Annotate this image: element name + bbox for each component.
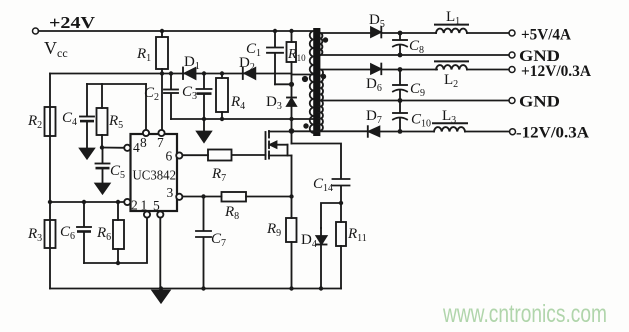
svg-text:R2: R2 — [27, 113, 42, 131]
diode D5 — [371, 27, 381, 38]
pin 6 circle — [176, 152, 182, 158]
capacitor C3 — [197, 74, 212, 120]
svg-text:1: 1 — [141, 198, 148, 213]
wire snubber to C14 — [292, 144, 342, 179]
svg-text:R4: R4 — [230, 94, 245, 112]
capacitor C6 — [77, 202, 91, 263]
svg-text:GND: GND — [519, 94, 560, 111]
ground under C5 — [96, 184, 110, 194]
svg-text:8: 8 — [140, 135, 147, 150]
phasing dot primary top — [302, 76, 308, 82]
svg-text:7: 7 — [157, 135, 164, 150]
diode D4 — [317, 228, 327, 289]
junction C3 bottom on ground bus — [202, 117, 206, 121]
node D3 cathode junction — [289, 82, 294, 87]
transformer secondary winding W1 — [321, 33, 323, 55]
resistor R4 — [216, 74, 228, 120]
junction R1 top on +24V rail — [160, 29, 164, 33]
svg-text:R3: R3 — [27, 226, 42, 244]
svg-text:UC3842: UC3842 — [133, 169, 177, 184]
junction R10 top on +24V rail — [289, 29, 293, 33]
junction R9 bottom on ground rail — [289, 286, 293, 290]
pin 7 circle — [158, 130, 164, 136]
svg-text:C9: C9 — [410, 81, 425, 99]
diode D1 — [183, 68, 196, 80]
diode D6 — [371, 64, 381, 75]
wire Vcc second rail — [50, 73, 292, 75]
transformer secondary winding W2 — [321, 70, 323, 101]
junction C8 top on +5V row — [398, 31, 403, 36]
svg-text:R5: R5 — [108, 113, 123, 131]
capacitor C7 — [196, 197, 211, 289]
ground symbol under bus — [197, 119, 211, 142]
junction D4 bottom on ground rail — [319, 286, 323, 290]
junction C10 bottom on -12V row — [398, 129, 403, 134]
wire pin 3 row — [183, 196, 222, 198]
svg-text:D3: D3 — [266, 94, 282, 112]
pin 4 circle — [124, 145, 130, 151]
svg-text:R10: R10 — [287, 47, 306, 63]
junction R4 bottom on ground bus — [220, 117, 224, 121]
wire bottom ground rail — [50, 288, 341, 290]
capacitor C10 — [393, 101, 407, 132]
terminal +5V — [509, 30, 515, 36]
svg-text:3: 3 — [167, 185, 174, 200]
wire drain row to transformer and D7 — [292, 130, 368, 132]
inductor L3 — [433, 123, 467, 131]
wire source down — [291, 156, 293, 197]
svg-text:C5: C5 — [110, 163, 125, 181]
MOSFET Q1 — [266, 131, 292, 159]
capacitor C2 — [164, 74, 178, 120]
junction R6 bottom on pin 1 wire — [116, 261, 120, 265]
svg-text:-12V/0.3A: -12V/0.3A — [516, 125, 589, 142]
terminal +12V — [509, 67, 515, 73]
junction C2 top on Vcc rail — [169, 71, 173, 75]
svg-text:R9: R9 — [266, 221, 281, 239]
inductor L1 — [435, 25, 468, 33]
terminal GND2 — [509, 98, 515, 104]
UC3842 chip U1 — [131, 134, 178, 211]
resistor R8 — [222, 192, 247, 202]
pin 1 circle — [144, 211, 150, 217]
svg-text:R11: R11 — [347, 226, 367, 244]
wire GND row 1 — [322, 54, 509, 56]
svg-text:+12V/0.3A: +12V/0.3A — [521, 63, 591, 80]
wire stub to primary top tap — [292, 74, 314, 76]
resistor R10 — [287, 31, 297, 75]
svg-text:Vcc: Vcc — [44, 38, 68, 60]
resistor R3 — [45, 220, 56, 248]
diode D2 — [243, 68, 256, 80]
wire R8 to source node — [246, 196, 292, 198]
capacitor C1 — [267, 31, 292, 84]
svg-text:D6: D6 — [366, 76, 382, 94]
transformer T1 core — [313, 28, 320, 136]
svg-text:C6: C6 — [60, 224, 75, 242]
node source / R9 top / R8 — [289, 194, 293, 198]
svg-text:D4: D4 — [301, 232, 317, 250]
svg-text:6: 6 — [166, 149, 173, 164]
capacitor C9 — [393, 70, 407, 101]
junction R4 top on Vcc rail — [220, 71, 224, 75]
junction C7 top on pin 3 wire — [201, 194, 205, 198]
ground symbol main — [153, 291, 170, 303]
junction ground bus and drain line — [289, 117, 293, 121]
terminal -12V — [510, 129, 516, 135]
svg-text:+24V: +24V — [49, 13, 96, 32]
svg-text:D2: D2 — [239, 55, 255, 73]
svg-text:L3: L3 — [442, 108, 456, 126]
wire left rail — [49, 74, 51, 289]
pin 8 circle — [143, 84, 149, 136]
resistor R2 — [45, 107, 56, 136]
wire Vref y84 to pin 8 — [87, 83, 146, 85]
svg-text:D7: D7 — [366, 108, 382, 126]
ground under C4 — [80, 149, 94, 159]
svg-text:C14: C14 — [313, 176, 333, 194]
terminal GND1 — [509, 52, 515, 58]
svg-text:L2: L2 — [444, 72, 458, 90]
phasing dot primary bottom — [303, 123, 308, 128]
capacitor C5 — [96, 148, 110, 185]
junction C9 top on +12V row — [398, 67, 403, 72]
junction C7 bottom on ground rail — [201, 286, 205, 290]
wire +12V row — [322, 69, 371, 71]
wire R5 bottom to pin 4 — [102, 147, 124, 149]
wire feedback divider to pin 2 — [50, 201, 124, 203]
svg-text:C10: C10 — [411, 112, 431, 130]
svg-text:R1: R1 — [136, 46, 151, 64]
inductor L2 — [435, 61, 468, 69]
phasing dot W1 — [323, 37, 328, 42]
pin 2 circle — [124, 199, 130, 205]
wire ground bus y119 — [171, 118, 313, 120]
diode D7 — [368, 126, 380, 137]
transformer secondary winding W3 — [321, 101, 323, 131]
transformer primary winding — [310, 31, 314, 133]
svg-text:D5: D5 — [369, 12, 385, 30]
phasing dot W2 — [321, 74, 326, 79]
node drain junction — [289, 128, 295, 134]
svg-text:C7: C7 — [211, 231, 226, 249]
resistor R5 — [97, 84, 108, 148]
svg-text:5: 5 — [153, 198, 160, 213]
wire top +24V rail — [39, 30, 314, 32]
svg-text:4: 4 — [133, 140, 140, 155]
svg-text:C8: C8 — [409, 38, 424, 56]
svg-text:D1: D1 — [184, 54, 200, 72]
resistor R7 — [208, 150, 232, 161]
diode D3 — [287, 75, 296, 144]
resistor R6 — [113, 202, 124, 263]
junction C9 bottom / C10 top on GND row — [398, 98, 403, 103]
MOSFET Q1 gate lead — [232, 154, 266, 156]
svg-text:www.cntronics.com: www.cntronics.com — [442, 300, 607, 328]
junction C6 top on pin 2 wire — [82, 200, 86, 204]
junction C3 top on Vcc rail — [202, 71, 206, 75]
wire GND row 2 — [322, 100, 509, 102]
pin 5 circle — [157, 211, 163, 217]
junction C1 top on +24V rail — [273, 29, 277, 33]
wire +5V row — [322, 32, 371, 34]
svg-text:R6: R6 — [96, 225, 111, 243]
svg-text:C2: C2 — [144, 85, 159, 103]
wire pin 5 to ground rail — [159, 218, 161, 289]
junction C14 bottom node — [339, 201, 343, 205]
wire C14 node to D4 — [321, 203, 341, 228]
junction R5 bottom / C5 / pin 4 — [100, 145, 104, 149]
svg-text:C4: C4 — [62, 110, 77, 128]
svg-text:L1: L1 — [446, 9, 460, 27]
svg-text:R7: R7 — [211, 166, 226, 184]
junction pin5 line on ground rail — [159, 286, 163, 290]
resistor R1 — [156, 31, 168, 130]
pin 3 circle — [176, 194, 182, 200]
capacitor C14 — [333, 179, 350, 203]
svg-text:C3: C3 — [182, 84, 197, 102]
junction divider tap on left rail — [48, 200, 52, 204]
capacitor C8 — [393, 33, 407, 55]
resistor R9 — [286, 197, 297, 289]
capacitor C4 — [80, 84, 94, 149]
node +24V input terminal — [33, 28, 39, 34]
junction C8 bottom on GND row — [398, 53, 403, 58]
svg-text:2: 2 — [131, 198, 138, 213]
junction R1 bottom on Vcc rail — [160, 71, 164, 75]
wire comp network to pin 1 — [84, 218, 147, 263]
wire pin 6 to R7 — [183, 154, 209, 156]
junction R6 top on pin 2 wire — [116, 200, 120, 204]
svg-text:+5V/4A: +5V/4A — [521, 27, 571, 44]
svg-text:R8: R8 — [224, 204, 239, 222]
resistor R11 — [336, 203, 346, 289]
